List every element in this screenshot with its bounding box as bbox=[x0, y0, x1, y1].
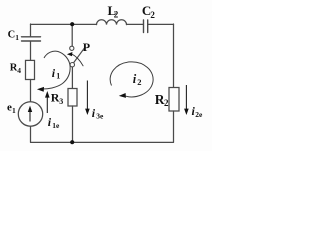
label i1 bbox=[52, 66, 60, 81]
resistor R2 bbox=[169, 88, 179, 112]
wire top rail middle segment bbox=[127, 23, 144, 25]
label e1 bbox=[7, 102, 16, 115]
capacitor C1 bbox=[22, 37, 41, 41]
resistor R3 bbox=[68, 89, 77, 107]
svg-text:3e: 3e bbox=[96, 112, 104, 121]
branch current arrow i1e bbox=[45, 91, 50, 113]
source e1 arrow bbox=[28, 106, 32, 122]
switch P lower contact bbox=[70, 62, 74, 66]
svg-text:P: P bbox=[83, 40, 90, 54]
wire bottom rail bbox=[31, 141, 174, 143]
wire left branch between R4 and e1 bbox=[30, 80, 32, 102]
branch current arrow i2e bbox=[184, 85, 189, 115]
wire left branch bottom bbox=[30, 126, 32, 142]
switch P upper contact bbox=[70, 46, 74, 50]
wire right branch lower bbox=[173, 111, 175, 142]
svg-text:i: i bbox=[133, 72, 137, 86]
mesh current i1 loop bbox=[37, 51, 70, 92]
resistor R4 bbox=[26, 60, 35, 79]
svg-text:2: 2 bbox=[137, 77, 141, 87]
wire top rail right segment bbox=[148, 23, 174, 25]
label i3e bbox=[92, 106, 104, 121]
label L2 bbox=[108, 3, 119, 20]
source e1 bbox=[18, 102, 42, 126]
svg-text:C: C bbox=[8, 30, 16, 41]
svg-text:1: 1 bbox=[56, 72, 60, 81]
wire left branch top bbox=[30, 24, 32, 37]
capacitor C2 bbox=[144, 20, 148, 33]
switch P blade bbox=[74, 48, 85, 62]
svg-text:4: 4 bbox=[17, 66, 21, 75]
label i2e bbox=[192, 104, 203, 119]
wire middle branch top bbox=[71, 24, 73, 46]
label C1 bbox=[8, 30, 20, 42]
inductor L2 bbox=[97, 20, 127, 25]
svg-text:1: 1 bbox=[12, 106, 16, 115]
svg-text:1e: 1e bbox=[52, 121, 60, 130]
wire middle branch bottom bbox=[72, 106, 74, 142]
label R4 bbox=[10, 63, 21, 75]
svg-text:3: 3 bbox=[59, 97, 63, 106]
svg-text:2: 2 bbox=[114, 10, 119, 20]
label C2 bbox=[142, 3, 156, 20]
wire top rail left segment bbox=[31, 23, 97, 25]
node top junction bbox=[70, 22, 74, 26]
wire right branch upper bbox=[173, 24, 175, 88]
svg-text:2: 2 bbox=[150, 10, 155, 20]
branch current arrow i3e bbox=[85, 81, 90, 116]
node bottom junction bbox=[70, 140, 74, 144]
label R3 bbox=[51, 91, 64, 106]
label R2 bbox=[155, 92, 169, 108]
svg-text:1: 1 bbox=[15, 33, 19, 42]
label i1e bbox=[48, 115, 60, 130]
wire left branch between C1 and R4 bbox=[30, 41, 32, 60]
label i2 bbox=[133, 72, 142, 87]
svg-text:2e: 2e bbox=[195, 110, 203, 119]
switch P motion arrow bbox=[67, 52, 83, 66]
mesh current i2 loop bbox=[110, 62, 153, 98]
wire middle branch between switch and R3 bbox=[71, 67, 73, 89]
svg-text:2: 2 bbox=[164, 98, 169, 108]
